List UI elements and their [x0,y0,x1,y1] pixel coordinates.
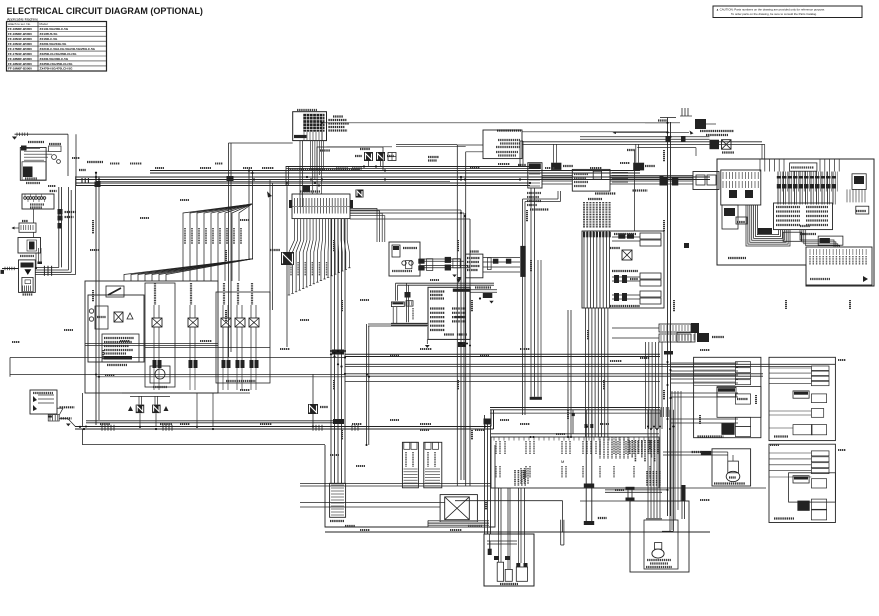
wire gps to trunk [48,393,82,427]
beacon stub pair [484,419,635,502]
telematics terminal box [572,169,647,193]
svg-text:ZX160LC-5G: ZX160LC-5G [40,37,59,41]
wire bottom links [300,484,564,546]
svg-text:ZX210LC-5G/LCH-5G/240-5G/250LC: ZX210LC-5G/LCH-5G/240-5G/250LC-5G [40,47,96,51]
starter switch box [20,144,61,183]
horn relay [270,187,294,347]
cab unit outer box [717,159,874,286]
wire gps double extension [86,419,344,424]
cab fuse sub box [721,170,761,205]
title [7,6,203,16]
svg-text:ZX130-5G/200LC-5G: ZX130-5G/200LC-5G [40,27,69,31]
wire connector drops splayed [288,219,351,295]
svg-text:ZX350H-5G/350LCH-5G: ZX350H-5G/350LCH-5G [40,62,74,66]
turn box [12,221,37,232]
wire harness verticals center [350,210,470,486]
wire main power trunk [76,134,710,186]
svg-text:FF-17M0F-B5000: FF-17M0F-B5000 [8,47,32,51]
wiper connector block 2 [424,442,442,488]
radio box left [483,130,522,159]
junction blobs [95,176,690,355]
accessorial pump box [663,449,751,486]
svg-text:Model: Model [40,22,49,26]
wiper connector block 1 [402,442,418,488]
radio small boxes [722,205,747,229]
wire washer staircase [455,501,563,532]
svg-text:FF-17M1F-B5000: FF-17M1F-B5000 [8,52,32,56]
svg-text:ELECTRICAL CIRCUIT DIAGRAM (OP: ELECTRICAL CIRCUIT DIAGRAM (OPTIONAL) [7,6,203,16]
fuse block 4x [22,191,57,209]
sdma connector 1 [551,163,573,170]
svg-text:ZX470H-5G/470LCH-5G: ZX470H-5G/470LCH-5G [40,67,74,71]
lighter unit box [389,242,420,276]
breaker components top right [580,136,734,156]
accessory connector [783,232,843,245]
cab pin box [491,437,766,488]
akl connector pair [584,410,607,525]
pin box right dense labels [515,440,660,486]
svg-text:ZX200-5G/210H-5G: ZX200-5G/210H-5G [40,42,68,46]
washer pump box [484,534,534,586]
cab monitor box [774,203,833,230]
svg-text:FF-16M0F-B5000: FF-16M0F-B5000 [8,27,32,31]
wire right fanout [600,363,738,459]
glow relay connectors [58,187,76,267]
lower trunk tick marks [102,350,358,431]
cab center connector cluster [760,160,839,205]
wire telematics lines [396,131,765,487]
gps antenna box [693,172,719,190]
acc relay 1 [355,149,373,166]
wire fan lower [124,259,253,281]
fuse box [293,110,350,141]
washer relay [308,374,328,426]
antenna relay 2 [152,396,168,427]
connector comb rows right [612,323,699,342]
alarm unit box [582,231,664,308]
wheel alarm row 3 [610,291,661,306]
option box 3 [769,444,835,522]
fuel pump symbol [150,366,170,387]
wire right bundle verticals [646,342,663,429]
wheel alarm row 2 [612,271,661,286]
horn unit box [466,246,526,278]
antenna relay 1 [128,396,144,427]
wire trunk start [40,162,103,425]
wire right trunk vertical [645,108,716,516]
wire gray bundle to pump box [428,521,489,528]
alarm relay [610,248,632,260]
wire beacon feed [580,410,686,532]
svg-text:ZX250LCH-5G/260LCH-5G: ZX250LCH-5G/260LCH-5G [40,52,78,56]
svg-text:FF-16M1F-B5000: FF-16M1F-B5000 [8,42,32,46]
acc relay 2 [376,152,394,166]
relay board box [85,281,270,393]
pilot lamp unit [88,286,144,362]
cab right small unit [847,174,869,214]
wire vertical bundle left-center [331,219,345,483]
wire tuner right [470,288,497,304]
svg-text:FF-16M1F-B5000: FF-16M1F-B5000 [8,37,32,41]
wire cluster bottom rail [122,348,270,431]
horn box [18,209,41,269]
bottom left pin labels [521,468,528,484]
junction dots scatter [85,122,675,491]
antenna connector comb [518,163,549,397]
svg-text:M: M [561,459,564,464]
connector comb bottom-left [330,483,346,521]
svg-text:Applicable Machine: Applicable Machine [7,17,38,21]
wire strip to lighter [350,209,385,243]
wire cab bottom links [800,230,840,247]
key switch feed wire [12,133,68,177]
wire telematics L drop [523,191,561,415]
wire lighter to harness [406,257,471,280]
tuner unit box [425,287,471,348]
option box 1 [694,357,761,437]
svg-text:FF-18M0F-B5000: FF-18M0F-B5000 [8,57,32,61]
wire fusebox down [229,123,668,357]
acc relay label box [286,147,383,186]
wiper motor box [440,495,477,522]
wire bottom verticals [325,415,710,534]
connector strip main [289,192,353,219]
wire horn vertical pair [267,180,273,310]
relay columns [152,283,259,390]
wire upper bottom trunk segment [490,397,660,434]
wire telematics horizontal [542,176,693,186]
wire fan upper [183,171,253,281]
svg-text:Attach to ser. No.: Attach to ser. No. [8,22,31,26]
key relay [303,186,364,198]
battery ground wire [1,267,19,274]
wire labels scatter [12,150,850,530]
svg-text:ZX135US-5G: ZX135US-5G [40,32,59,36]
svg-text:ZX330-5G/330LC-5G: ZX330-5G/330LC-5G [40,57,69,61]
svg-text:FF-18M1F-B5000: FF-18M1F-B5000 [8,62,32,66]
wire lower trunk [75,410,494,445]
battery feed wires [35,176,75,275]
applicable machine table [7,17,107,71]
cigar connector [391,302,428,325]
plug socket symbol [388,153,439,161]
tilt connector [677,333,724,343]
wire middle trunk [10,344,835,382]
beacon lamp box [630,501,689,572]
wire CAN bundle [583,199,634,437]
wire misc verticals [466,141,572,437]
svg-text:FF-19M0F-B5000: FF-19M0F-B5000 [8,67,32,71]
wheel alarm row 1 [612,233,661,246]
option box 2 [769,357,835,440]
battery [19,260,36,295]
caution box [713,6,862,18]
wire tuner top pair [396,279,495,323]
gps unit box [30,390,57,414]
wire cab nested bundle [746,205,790,246]
washer big box [325,445,495,527]
wire right lower verticals [661,391,681,530]
sdma connector 2 [633,163,655,171]
svg-text:FF-16M0F-B5000: FF-16M0F-B5000 [8,32,32,36]
controller sub box [102,334,139,365]
cab bottom table [806,247,872,285]
svg-text:To order parts on the drawing,: To order parts on the drawing, be sure t… [731,12,817,16]
wire tuner drop pair [367,301,428,445]
